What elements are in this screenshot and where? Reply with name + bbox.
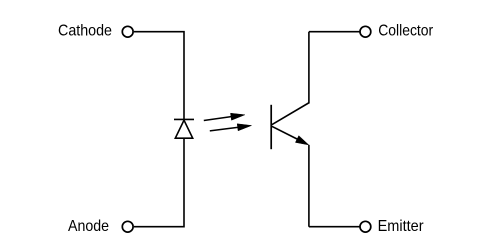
diode D1 triangle (LED) bbox=[175, 120, 192, 138]
wire emitter to terminal (bottom-right L) bbox=[309, 145, 360, 227]
svg-text:Emitter: Emitter bbox=[378, 218, 425, 235]
svg-text:Cathode: Cathode bbox=[58, 23, 112, 40]
wire collector to terminal (top-right L) bbox=[309, 32, 360, 104]
phototransistor Q1 collector diagonal bbox=[272, 103, 310, 125]
phototransistor Q1 base bar bbox=[270, 105, 272, 149]
wire cathode terminal to diode (top-left L) bbox=[134, 31, 184, 120]
light arrow 1 bbox=[204, 113, 245, 120]
label Cathode bbox=[58, 23, 112, 40]
svg-text:Collector: Collector bbox=[378, 23, 434, 40]
label Collector bbox=[378, 23, 434, 40]
phototransistor Q1 emitter diagonal with arrow bbox=[272, 126, 309, 145]
label Emitter bbox=[378, 218, 425, 235]
wire diode to anode terminal (bottom-left L) bbox=[134, 139, 184, 228]
terminal circle collector bbox=[360, 26, 371, 37]
label Anode bbox=[68, 218, 109, 235]
light arrow 2 bbox=[210, 124, 252, 131]
terminal circle emitter bbox=[360, 221, 371, 232]
terminal circle cathode bbox=[122, 26, 133, 37]
diode D1 cathode bar bbox=[174, 118, 194, 120]
svg-text:Anode: Anode bbox=[68, 218, 109, 235]
terminal circle anode bbox=[122, 221, 133, 232]
